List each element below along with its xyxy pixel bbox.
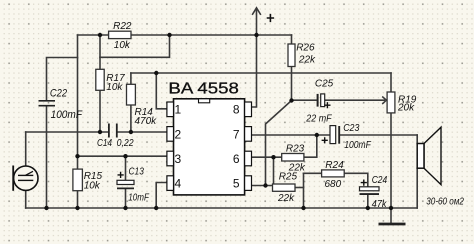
svg-text:22 mF: 22 mF <box>305 114 332 125</box>
svg-text:10mF: 10mF <box>128 192 149 203</box>
svg-text:1: 1 <box>175 103 182 117</box>
svg-text:C25: C25 <box>315 79 334 90</box>
svg-text:470k: 470k <box>135 116 158 127</box>
svg-text:BA 4558: BA 4558 <box>168 81 239 98</box>
svg-text:C24: C24 <box>372 175 388 186</box>
svg-text:22k: 22k <box>298 54 316 65</box>
svg-text:R25: R25 <box>279 172 298 183</box>
svg-text:R24: R24 <box>325 160 344 171</box>
svg-text:7: 7 <box>233 127 240 141</box>
svg-text:30-60 ом2: 30-60 ом2 <box>426 197 464 208</box>
svg-text:100mF: 100mF <box>51 109 84 121</box>
svg-text:6: 6 <box>233 152 240 166</box>
svg-text:4: 4 <box>175 177 182 191</box>
svg-text:10k: 10k <box>106 82 123 93</box>
svg-text:C14: C14 <box>97 138 112 149</box>
svg-text:2: 2 <box>175 127 182 141</box>
svg-text:8: 8 <box>233 103 240 117</box>
svg-text:47k: 47k <box>372 199 388 210</box>
svg-text:C23: C23 <box>343 123 360 134</box>
svg-text:0,22: 0,22 <box>117 138 134 149</box>
svg-text:10k: 10k <box>84 181 101 192</box>
svg-text:22k: 22k <box>277 193 295 204</box>
svg-text:R26: R26 <box>296 42 315 53</box>
svg-text:5: 5 <box>233 177 240 191</box>
svg-text:C13: C13 <box>129 166 145 177</box>
svg-text:R23: R23 <box>286 144 305 155</box>
svg-text:C22: C22 <box>50 88 67 100</box>
svg-text:3: 3 <box>175 152 182 166</box>
svg-text:100mF: 100mF <box>344 140 371 151</box>
svg-text:20k: 20k <box>397 103 415 114</box>
svg-text:680: 680 <box>325 179 342 190</box>
svg-text:10k: 10k <box>114 40 131 51</box>
svg-text:R22: R22 <box>113 21 132 32</box>
